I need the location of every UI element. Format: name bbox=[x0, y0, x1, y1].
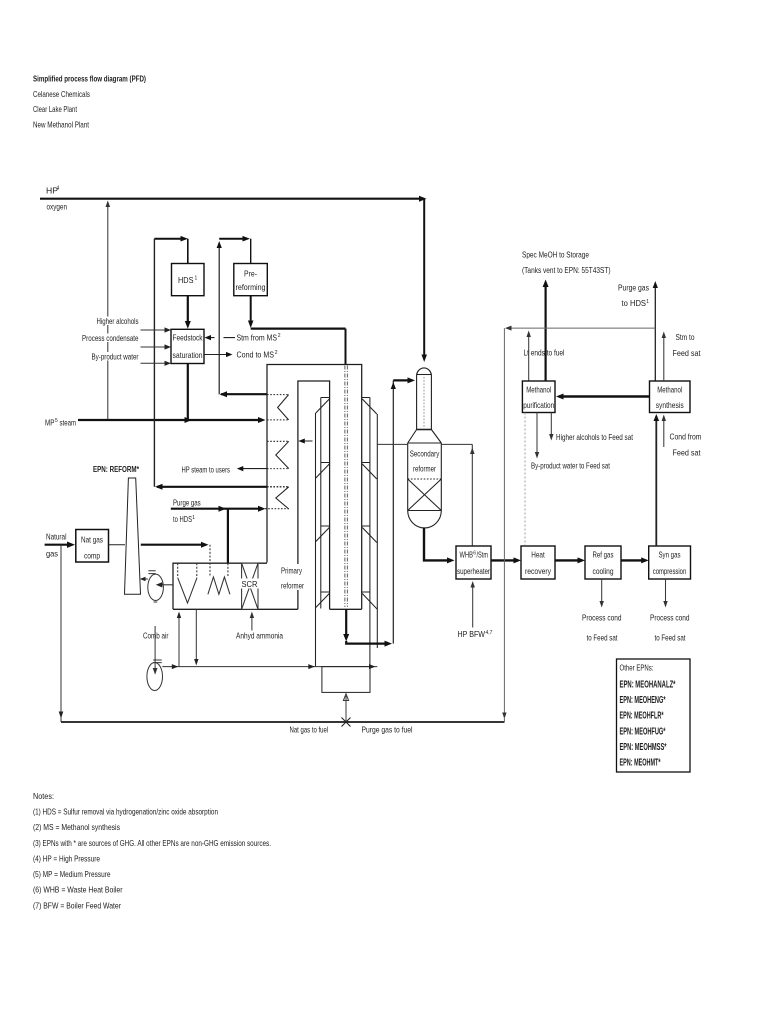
component Nat gas comp box bbox=[76, 530, 109, 563]
wire Stm from MS into feedstock sat bbox=[207, 337, 235, 339]
svg-text:steam: steam bbox=[60, 418, 77, 428]
svg-text:Process cond: Process cond bbox=[582, 613, 622, 623]
svg-text:EPN: MEOHANALZ*: EPN: MEOHANALZ* bbox=[620, 679, 676, 690]
component methanol purification box bbox=[522, 381, 555, 413]
wire synthesis to purification bbox=[559, 395, 650, 397]
svg-text:to HDS: to HDS bbox=[622, 298, 647, 308]
svg-text:Clear Lake Plant: Clear Lake Plant bbox=[33, 104, 77, 114]
svg-text:Purge gas: Purge gas bbox=[173, 498, 201, 508]
component Heat recovery box bbox=[521, 546, 555, 579]
svg-text:compression: compression bbox=[653, 566, 687, 576]
svg-text:2: 2 bbox=[275, 350, 278, 356]
svg-text:Higher alcohols to Feed sat: Higher alcohols to Feed sat bbox=[556, 432, 633, 442]
wire purge fuel drop bbox=[503, 328, 505, 717]
svg-text:Pre-: Pre- bbox=[244, 269, 257, 279]
component HDS box bbox=[172, 264, 205, 296]
svg-text:MP: MP bbox=[45, 418, 55, 428]
wire process cond from ref gas cooling bbox=[601, 579, 603, 605]
svg-text:comp: comp bbox=[84, 551, 100, 561]
wire anhyd ammonia arrow bbox=[251, 614, 253, 631]
svg-text:to HDS: to HDS bbox=[173, 514, 192, 524]
svg-text:1: 1 bbox=[192, 515, 195, 521]
svg-text:4,7: 4,7 bbox=[486, 630, 493, 636]
component ID fan upper bbox=[148, 571, 164, 602]
svg-text:Heat: Heat bbox=[531, 550, 545, 560]
svg-text:EPN: MEOHMSS*: EPN: MEOHMSS* bbox=[620, 742, 667, 753]
svg-text:/Stm: /Stm bbox=[477, 550, 489, 560]
wire pre-reforming return line bbox=[221, 393, 267, 395]
svg-text:New Methanol Plant: New Methanol Plant bbox=[33, 120, 89, 130]
svg-text:HDS: HDS bbox=[178, 275, 194, 285]
wire riser x=107.8 to oxygen header bbox=[107, 202, 109, 420]
component Feedstock saturation box bbox=[171, 329, 204, 363]
wire purge to fuel header line bbox=[507, 327, 656, 329]
svg-text:Process cond: Process cond bbox=[650, 613, 690, 623]
wire purification vent dashed bbox=[524, 413, 526, 546]
svg-text:HP steam to users: HP steam to users bbox=[182, 465, 231, 475]
svg-text:Nat gas to fuel: Nat gas to fuel bbox=[290, 725, 329, 735]
svg-text:5: 5 bbox=[55, 418, 58, 424]
wire spec MeOH storage arrow bbox=[544, 283, 546, 381]
component Syn gas compression box bbox=[649, 546, 691, 579]
wire comb air duct bbox=[162, 666, 377, 668]
wire fuel riser to header bbox=[345, 696, 347, 722]
svg-text:to Feed sat: to Feed sat bbox=[655, 633, 686, 643]
svg-text:(3) EPNs with * are sources of: (3) EPNs with * are sources of GHG. All … bbox=[33, 838, 271, 848]
svg-text:Cond from: Cond from bbox=[670, 432, 702, 442]
wire feed arrows into feedstock sat bbox=[141, 329, 169, 331]
wire flue flow arrow in duct bbox=[300, 440, 313, 442]
svg-text:1: 1 bbox=[646, 299, 649, 305]
wire pre-reforming outlet to reformer bbox=[250, 296, 252, 325]
wire ref gas cooling to syn gas compression bbox=[621, 559, 646, 561]
wire HP oxygen drop to secondary reformer bbox=[423, 199, 425, 357]
wire heat recovery to ref gas cooling bbox=[555, 559, 582, 561]
component primary reformer casing R1 bbox=[267, 365, 362, 610]
wire recycle line to loop bbox=[157, 486, 267, 488]
svg-text:4: 4 bbox=[57, 186, 60, 192]
wire reformer transfer line bbox=[345, 609, 347, 638]
svg-text:Lt ends to fuel: Lt ends to fuel bbox=[524, 348, 565, 358]
component firebox bbox=[173, 563, 267, 609]
svg-text:EPN: MEOHFLR*: EPN: MEOHFLR* bbox=[620, 711, 664, 722]
svg-text:HP BFW: HP BFW bbox=[458, 629, 486, 639]
component bottom header box bbox=[322, 667, 370, 693]
svg-text:Spec MeOH to Storage: Spec MeOH to Storage bbox=[522, 250, 589, 260]
component SCR unit bbox=[239, 563, 259, 609]
wire HDS to feedstock saturation bbox=[187, 296, 189, 325]
svg-text:By-product water to Feed sat: By-product water to Feed sat bbox=[531, 461, 610, 471]
wire purge gas drop to burners bbox=[227, 509, 229, 564]
svg-text:saturation: saturation bbox=[173, 350, 203, 360]
wire nat gas comp to stack crossing bbox=[109, 544, 126, 546]
component burner coil V1 bbox=[178, 578, 197, 603]
wire secondary reformer right shoulder to WHB bbox=[441, 444, 472, 546]
component flue duct R2 bbox=[298, 381, 330, 609]
svg-text:Stm from MS: Stm from MS bbox=[237, 332, 278, 342]
svg-text:Natural: Natural bbox=[46, 532, 67, 542]
wire secondary reformer left shoulder bbox=[377, 443, 407, 445]
node fuel junction X bbox=[342, 718, 351, 727]
svg-text:superheater: superheater bbox=[457, 566, 490, 576]
component stack chimney bbox=[125, 478, 141, 594]
wire by-product water drop bbox=[536, 413, 538, 457]
wire reformer bottom edges bbox=[173, 608, 298, 610]
wire stm to feed sat arrow bbox=[663, 334, 665, 382]
component methanol synthesis box bbox=[650, 381, 691, 413]
svg-text:(5) MP = Medium Pressure: (5) MP = Medium Pressure bbox=[33, 869, 111, 879]
wire higher alcohols drop bbox=[550, 413, 552, 439]
wire transfer riser to secondary reformer bbox=[392, 380, 394, 643]
title block bbox=[33, 74, 146, 130]
wire cond from feed sat arrow bbox=[663, 417, 665, 448]
wire HP steam to users arrow bbox=[239, 468, 267, 470]
svg-text:Ref gas: Ref gas bbox=[593, 550, 614, 560]
svg-text:Syn gas: Syn gas bbox=[659, 550, 681, 560]
svg-text:(4) HP = High Pressure: (4) HP = High Pressure bbox=[33, 854, 100, 864]
wire comb air suction bbox=[154, 626, 156, 673]
svg-text:synthesis: synthesis bbox=[656, 400, 684, 410]
component Pre-reforming box bbox=[234, 264, 267, 296]
wire fuel line bottom bbox=[61, 721, 505, 723]
svg-text:(6) WHB = Waste Heat Boiler: (6) WHB = Waste Heat Boiler bbox=[33, 885, 123, 895]
svg-text:Feedstock: Feedstock bbox=[173, 333, 204, 343]
wire pre-reforming riser bbox=[218, 243, 220, 394]
svg-text:to Feed sat: to Feed sat bbox=[587, 633, 618, 643]
svg-text:Methanol: Methanol bbox=[657, 385, 682, 395]
wire Lt ends arrow bbox=[528, 333, 530, 382]
component convection coil 2 bbox=[267, 441, 289, 468]
svg-text:Feed sat: Feed sat bbox=[673, 448, 702, 458]
svg-text:Stm to: Stm to bbox=[676, 332, 695, 342]
svg-text:Anhyd ammonia: Anhyd ammonia bbox=[236, 631, 283, 641]
wire HP oxygen header bbox=[40, 198, 424, 200]
wire secondary reformer outlet to WHB bbox=[424, 528, 451, 561]
component convection coil 1 bbox=[267, 395, 289, 420]
component FD fan lower bbox=[147, 660, 163, 691]
svg-text:Simplified process flow diagra: Simplified process flow diagram (PFD) bbox=[33, 74, 146, 84]
notes block bbox=[33, 791, 271, 910]
svg-text:EPN: MEOHMT*: EPN: MEOHMT* bbox=[620, 758, 661, 769]
svg-text:oxygen: oxygen bbox=[47, 202, 68, 212]
svg-text:EPN: MEOHFUG*: EPN: MEOHFUG* bbox=[620, 726, 666, 737]
node feed labels bbox=[96, 317, 140, 326]
component other EPNs box bbox=[617, 659, 691, 772]
svg-text:reformer: reformer bbox=[281, 581, 304, 591]
svg-text:EPN: MEOHENG*: EPN: MEOHENG* bbox=[620, 695, 666, 706]
svg-text:Comb air: Comb air bbox=[143, 631, 169, 641]
svg-text:Secondary: Secondary bbox=[410, 449, 440, 459]
svg-text:recovery: recovery bbox=[525, 566, 552, 576]
wire process cond from syn gas compression bbox=[665, 579, 667, 605]
svg-text:gas: gas bbox=[46, 549, 58, 559]
wire purge gas line bbox=[171, 508, 262, 510]
label primary reformer bbox=[279, 564, 306, 591]
component burner coil W2 bbox=[208, 577, 230, 594]
svg-text:2: 2 bbox=[278, 333, 281, 339]
component reformer tube bank right bbox=[362, 398, 378, 667]
svg-text:purification: purification bbox=[523, 400, 554, 410]
svg-text:WHB: WHB bbox=[460, 550, 474, 560]
svg-text:Higher alcohols: Higher alcohols bbox=[97, 316, 139, 326]
svg-text:cooling: cooling bbox=[593, 566, 614, 576]
svg-text:Other EPNs:: Other EPNs: bbox=[620, 662, 654, 672]
component convection coil 3 bbox=[267, 487, 289, 509]
wire Cond to MS out of feedstock sat bbox=[204, 354, 228, 356]
svg-text:Celanese Chemicals: Celanese Chemicals bbox=[33, 89, 90, 99]
svg-text:(7) BFW = Boiler Feed Water: (7) BFW = Boiler Feed Water bbox=[33, 900, 121, 910]
svg-text:EPN: REFORM*: EPN: REFORM* bbox=[93, 464, 139, 474]
wire left loop vertical bbox=[153, 239, 155, 487]
component secondary reformer vessel bbox=[408, 368, 442, 528]
wire loop top to HDS bbox=[154, 238, 185, 240]
wire WHB to heat recovery bbox=[491, 559, 518, 561]
wire firebox to ID fan bbox=[158, 584, 173, 586]
svg-text:(Tanks vent to EPN: 55T43ST): (Tanks vent to EPN: 55T43ST) bbox=[522, 265, 611, 275]
wire syn gas to methanol synthesis bbox=[655, 416, 657, 546]
svg-text:(2) MS = Methanol synthesis: (2) MS = Methanol synthesis bbox=[33, 822, 120, 832]
wire reformer centerline dashdot bbox=[344, 366, 346, 607]
svg-text:Methanol: Methanol bbox=[526, 385, 551, 395]
svg-text:Process condensate: Process condensate bbox=[82, 333, 139, 343]
wire nat gas branch to fuel line bbox=[60, 545, 62, 722]
svg-text:Purge gas: Purge gas bbox=[618, 283, 649, 293]
component WHB Stm superheater box bbox=[456, 546, 491, 579]
svg-text:1: 1 bbox=[195, 276, 198, 282]
svg-text:reforming: reforming bbox=[236, 282, 266, 292]
wire firebox drop to duct bbox=[195, 609, 197, 663]
svg-text:reformer: reformer bbox=[413, 464, 436, 474]
svg-text:Feed sat: Feed sat bbox=[673, 348, 702, 358]
component Ref gas cooling box bbox=[585, 546, 621, 579]
wire HP BFW arrow bbox=[472, 583, 474, 628]
wire ID fan to stack bbox=[142, 578, 148, 580]
wire feedstock sat down to MP steam bbox=[187, 364, 189, 421]
svg-text:SCR: SCR bbox=[242, 579, 258, 589]
svg-text:Nat gas: Nat gas bbox=[81, 535, 103, 545]
svg-text:Purge gas to fuel: Purge gas to fuel bbox=[362, 725, 413, 735]
wire comb air riser into firebox bbox=[178, 614, 180, 667]
svg-text:(1) HDS = Sulfur removal via h: (1) HDS = Sulfur removal via hydrogenati… bbox=[33, 807, 218, 817]
wire HP oxygen arrowhead right bbox=[419, 196, 427, 202]
svg-text:Notes:: Notes: bbox=[33, 791, 54, 801]
component reformer tube bank left bbox=[316, 398, 330, 667]
svg-text:Cond to MS: Cond to MS bbox=[237, 349, 275, 359]
wire inlet to secondary reformer bbox=[393, 379, 412, 381]
svg-text:By-product water: By-product water bbox=[92, 352, 139, 362]
wire purge gas to HDS arrow bbox=[654, 284, 656, 382]
wire nat gas fuel to burners bbox=[141, 544, 205, 546]
svg-text:Primary: Primary bbox=[281, 566, 302, 576]
